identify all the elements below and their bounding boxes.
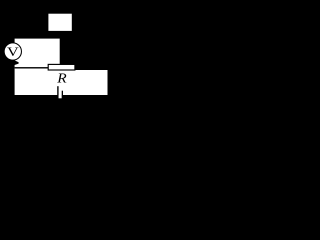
- wire (cut glyph stroke 1): [57, 86, 58, 95]
- node B (left white circuit panel): [15, 39, 60, 95]
- node C (lower-right white circuit panel): [59, 70, 108, 95]
- wire (voltmeter lead spur): [14, 60, 19, 65]
- resistor R (box symbol): [48, 64, 75, 70]
- wire (horizontal, to resistor): [15, 67, 48, 68]
- svg-text:V: V: [7, 46, 19, 60]
- node A (top white panel): [48, 14, 71, 31]
- value label R: [56, 71, 66, 86]
- voltmeter V1: [4, 43, 21, 60]
- background: [0, 0, 128, 137]
- wire (cut glyph stroke 2): [62, 91, 63, 95]
- svg-text:R: R: [56, 71, 66, 86]
- node B bottom notch (white tab below panel edge): [59, 94, 62, 98]
